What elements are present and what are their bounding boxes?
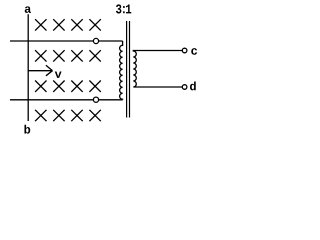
secondary winding L2: [133, 51, 182, 88]
turns ratio label 3:1: [116, 4, 121, 13]
field X row3 col3: [71, 81, 82, 92]
terminal d label: [190, 82, 196, 91]
terminal c label: [191, 48, 197, 55]
field X row1 col4: [89, 19, 100, 30]
terminal circle c: [182, 48, 187, 53]
node a label: [25, 6, 31, 13]
top rail wire: [10, 40, 123, 42]
field X row4 col2: [53, 110, 64, 121]
bottom rail wire: [10, 99, 123, 101]
velocity arrow: [28, 65, 52, 76]
label v: [55, 72, 62, 78]
terminal circle on bottom rail: [93, 97, 98, 102]
node b label: [24, 125, 30, 134]
field X row1 col2: [53, 19, 64, 30]
field X row2 col4: [89, 50, 100, 61]
terminal circle d: [182, 85, 187, 90]
field X row1 col1: [35, 19, 46, 30]
field X row4 col1: [35, 110, 46, 121]
terminal circle on top rail: [93, 38, 98, 43]
field X row3 col4: [89, 81, 100, 92]
field X row2 col3: [71, 50, 82, 61]
primary winding L1: [120, 41, 123, 100]
field X row3 col1: [35, 81, 46, 92]
field X row2 col1: [35, 50, 46, 61]
field X row4 col4: [89, 110, 100, 121]
field X row3 col2: [53, 81, 64, 92]
field X row2 col2: [53, 50, 64, 61]
transformer core right line: [129, 21, 131, 118]
field X row1 col3: [71, 19, 82, 30]
transformer core left line: [126, 21, 128, 118]
sliding conductor bar a-b: [27, 14, 29, 121]
field X row4 col3: [71, 110, 82, 121]
